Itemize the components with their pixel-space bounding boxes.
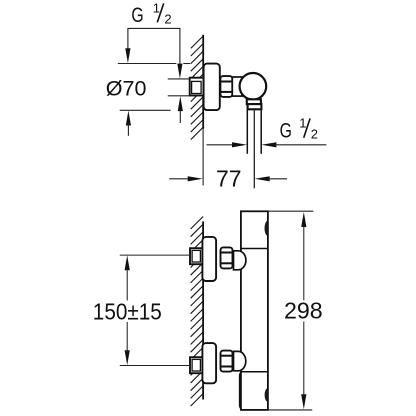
svg-text:298: 298 bbox=[284, 298, 323, 324]
arrow up to escutcheon bottom line bbox=[126, 111, 131, 126]
svg-text:1: 1 bbox=[153, 0, 160, 15]
wall hatching (top view) bbox=[191, 36, 203, 140]
lower hex nut (side view) bbox=[221, 351, 233, 372]
bottom cap left edge flare bbox=[240, 373, 242, 410]
bottom cap separation line bbox=[241, 371, 268, 373]
valve body circle (top view) bbox=[240, 73, 267, 100]
150±15 dimension line with arrows bbox=[125, 255, 130, 270]
union top extension line (G 1/2) bbox=[168, 78, 190, 80]
arrow up to union bottom line bbox=[178, 96, 183, 111]
svg-text:77: 77 bbox=[216, 166, 242, 192]
top cap separation line bbox=[241, 248, 268, 250]
arrow down to escutcheon top line bbox=[125, 48, 130, 63]
lower boss dome bbox=[234, 351, 246, 370]
svg-text:150±15: 150±15 bbox=[93, 299, 162, 325]
upper boss dome bbox=[234, 251, 246, 270]
298 top extension line bbox=[268, 210, 313, 212]
wall hatching (bottom view) bbox=[191, 217, 204, 407]
reference bracket from G 1/2 label bbox=[128, 28, 180, 65]
298 bottom extension line bbox=[268, 409, 312, 411]
wall face line (bottom view) bbox=[202, 221, 204, 399]
wall face extension line down to 77 dimension bbox=[202, 129, 204, 186]
svg-text:G: G bbox=[280, 118, 292, 142]
escutcheon flange (top view) bbox=[204, 64, 220, 111]
connector between nut and valve body (top view) bbox=[232, 77, 242, 96]
escutcheon bottom extension line (Ø70) bbox=[120, 109, 171, 111]
upper escutcheon (side view) bbox=[202, 237, 216, 281]
lower escutcheon (side view) bbox=[202, 343, 216, 383]
escutcheon top extension line (Ø70) bbox=[118, 63, 177, 65]
union bottom extension line (G 1/2) bbox=[168, 95, 190, 97]
77 dimension right arrow bbox=[255, 176, 270, 181]
upper wall union square bbox=[190, 248, 203, 264]
top end screw bbox=[265, 221, 268, 236]
thermostat bar body bbox=[241, 211, 268, 410]
collar ring 1 below valve body bbox=[247, 99, 261, 104]
svg-text:2: 2 bbox=[164, 11, 171, 26]
svg-text:G: G bbox=[131, 3, 143, 27]
collar ring 2 below valve body bbox=[248, 104, 262, 109]
outlet pipe centerline bbox=[253, 109, 255, 188]
hex nut (top view) bbox=[220, 76, 232, 97]
G 1/2 pipe dimension left arrow bbox=[207, 144, 234, 146]
svg-text:1: 1 bbox=[299, 116, 306, 131]
150±15 upper extension line bbox=[120, 254, 191, 256]
upper hex nut (side view) bbox=[221, 247, 233, 268]
lower wall union square bbox=[190, 357, 203, 373]
svg-text:Ø70: Ø70 bbox=[106, 76, 147, 100]
svg-text:2: 2 bbox=[311, 126, 318, 141]
150±15 lower extension line bbox=[120, 365, 190, 367]
bottom end screw bbox=[265, 388, 268, 401]
arrow down to union top line bbox=[177, 64, 182, 79]
77 dimension left arrow bbox=[169, 178, 189, 180]
298 dimension line with arrows bbox=[301, 212, 306, 227]
outlet pipe outer lines (top view) bbox=[246, 109, 248, 154]
G 1/2 pipe dimension right arrow bbox=[261, 142, 276, 147]
wall face line (top view) bbox=[202, 35, 204, 129]
wall union square (top view) bbox=[190, 78, 204, 96]
